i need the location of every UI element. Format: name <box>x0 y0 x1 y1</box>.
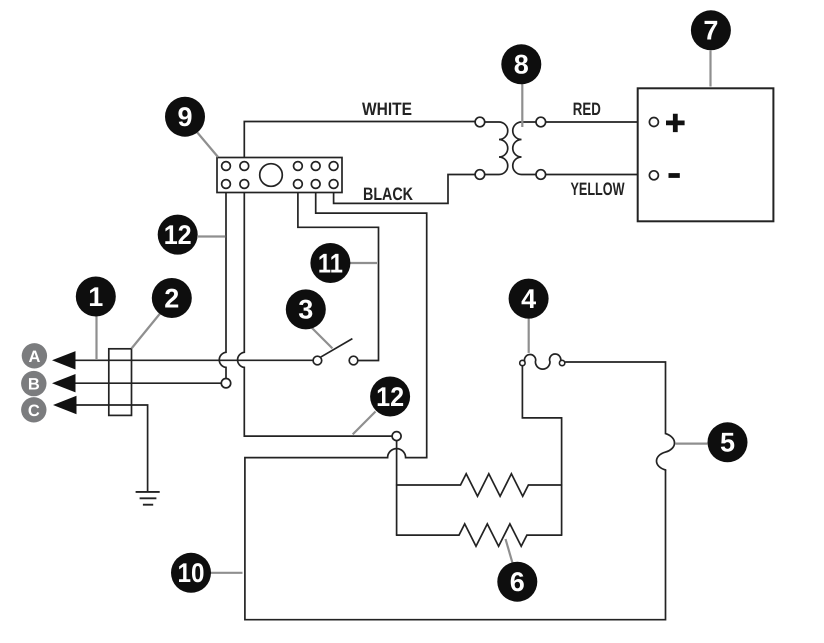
wire resistor bank left node riser <box>396 441 398 535</box>
svg-text:WHITE: WHITE <box>362 99 412 119</box>
leader 4 <box>528 318 530 353</box>
arrow A <box>52 351 76 369</box>
arrow B <box>52 374 76 392</box>
terminal strip 9 body <box>217 158 342 193</box>
resistor R-top (element 6a) <box>397 474 562 496</box>
wire from terminal strip pin to node B, hops over wire A <box>219 186 226 379</box>
node label C <box>21 397 46 422</box>
callout badge 2 <box>152 278 192 318</box>
callout badge 11 <box>310 243 350 283</box>
wire from breaker left terminal down to resistor bank right node <box>522 366 561 535</box>
svg-text:YELLOW: YELLOW <box>571 179 625 199</box>
connector block 2 body <box>109 349 132 416</box>
node label B <box>21 371 46 396</box>
wire hop S-curve at 5 on right riser <box>566 362 675 470</box>
terminal strip 9 mounting hole <box>260 164 283 187</box>
callout badge 4 <box>509 279 549 319</box>
transformer 8 secondary winding <box>513 122 536 175</box>
breaker 4 terminal circles <box>520 360 565 365</box>
svg-text:12: 12 <box>164 220 192 250</box>
leader 12a <box>198 235 226 237</box>
svg-text:10: 10 <box>178 558 205 588</box>
transformer terminal circles <box>475 117 545 179</box>
wire C from arrow to ground drop <box>75 405 148 491</box>
svg-text:3: 3 <box>298 295 313 325</box>
wire YELLOW from transformer secondary bottom to charger - <box>546 174 651 176</box>
switch 3 terminal circles <box>313 356 358 365</box>
wire BLACK from terminal strip to transformer primary bottom <box>334 175 476 204</box>
leader 10 <box>210 572 243 574</box>
wire A from arrow to switch <box>75 359 314 361</box>
node label A <box>22 343 47 368</box>
svg-text:2: 2 <box>164 283 179 313</box>
leader 3 <box>312 328 333 349</box>
switch 3 blade <box>320 339 352 358</box>
arrow C <box>53 396 77 414</box>
leader 6 <box>506 539 513 563</box>
callout badge 9 <box>165 97 205 137</box>
terminal strip 9 screw terminals top row <box>222 162 338 171</box>
wire 12 run from terminal strip down to junction node, hops over wire A <box>238 186 392 436</box>
callout badge 5 <box>708 422 748 462</box>
svg-text:B: B <box>28 376 40 394</box>
leader 9 <box>197 132 219 158</box>
wire RED from transformer secondary top to charger + <box>546 121 651 123</box>
svg-text:7: 7 <box>703 16 718 46</box>
svg-text:4: 4 <box>521 284 536 314</box>
charger input terminal circles <box>649 118 658 180</box>
callout leader lines <box>97 51 711 573</box>
wire B from arrow to junction circle <box>75 382 222 384</box>
wire WHITE from terminal strip to transformer primary top <box>244 122 476 165</box>
node 12 junction terminal circle <box>392 432 401 441</box>
callout badge 6 <box>497 562 537 602</box>
callout badge 1 <box>76 277 116 317</box>
callout badge 3 <box>286 289 326 329</box>
terminal strip 9 screw terminals bottom row <box>222 180 338 189</box>
leader 11 <box>350 262 377 264</box>
svg-text:9: 9 <box>177 102 192 132</box>
svg-text:8: 8 <box>514 50 529 80</box>
charger minus terminal symbol <box>669 173 680 178</box>
node B terminal circle <box>221 379 230 388</box>
leader 12b <box>353 412 376 435</box>
transformer 8 primary winding <box>485 122 508 175</box>
wire 10 loop: strip pin, down right side, bottom loop, up to breaker <box>245 186 666 620</box>
callout badge 8 <box>501 44 541 84</box>
leader 5 <box>676 443 708 445</box>
leader 2 <box>132 311 163 349</box>
leader 8 <box>521 84 523 127</box>
wire from switch to terminal strip via loop 11 <box>298 186 379 361</box>
callout badge 10 <box>171 553 211 593</box>
svg-text:12: 12 <box>376 382 404 412</box>
svg-text:RED: RED <box>573 99 601 119</box>
svg-text:11: 11 <box>318 248 343 278</box>
ground symbol <box>136 492 160 505</box>
leader 7 <box>709 51 711 87</box>
svg-text:BLACK: BLACK <box>363 184 413 204</box>
callout badge 12 first <box>158 215 198 255</box>
circuit breaker 4 double hump element <box>524 354 560 369</box>
callout badge 12 second <box>370 377 410 417</box>
svg-text:6: 6 <box>510 567 525 597</box>
svg-text:A: A <box>28 348 40 366</box>
leader 1 <box>95 316 97 359</box>
svg-text:C: C <box>28 402 40 420</box>
callout badge 7 <box>691 10 731 50</box>
resistor R-bottom (element 6b) <box>397 524 562 546</box>
svg-text:1: 1 <box>88 282 103 312</box>
svg-text:5: 5 <box>720 428 735 458</box>
charger plus terminal symbol <box>666 114 685 132</box>
battery charger box 7 <box>638 88 774 221</box>
